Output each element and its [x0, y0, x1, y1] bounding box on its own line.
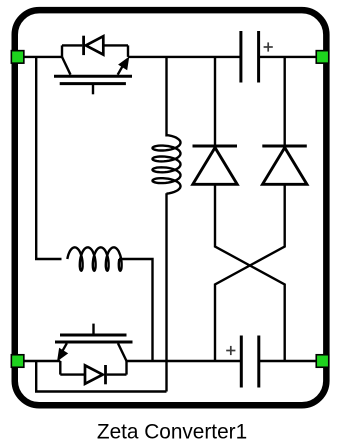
port terminal 2 (right top) — [316, 51, 329, 64]
IGBT Q1 emitter arrowhead — [119, 58, 129, 70]
IGBT Q2 gate stub — [92, 324, 94, 334]
IGBT Q1 bridge right vertical — [127, 45, 129, 57]
wire: left vertical drop to inductor L2 — [36, 57, 61, 259]
wire: bottom rail right of C2 to terminal — [259, 360, 322, 362]
IGBT Q1 bridge left vertical — [61, 45, 63, 57]
port terminal 4 (right bottom) — [316, 355, 329, 368]
capacitor C1 left plate — [239, 31, 242, 83]
IGBT Q1 anti-parallel diode triangle — [86, 36, 104, 54]
IGBT Q1 bridge top line left — [62, 44, 82, 46]
IGBT Q1 channel bar — [54, 75, 132, 78]
wire: top rail right of C1 to terminal — [259, 56, 322, 58]
IGBT Q1 right slant shaft (emitter) — [118, 65, 124, 75]
capacitor C2 left plate — [240, 336, 243, 388]
port terminal 1 (left top) — [11, 51, 24, 64]
IGBT Q2 bridge bottom line left — [60, 373, 85, 375]
IGBT Q2 bridge right vertical — [125, 361, 127, 375]
IGBT Q1 bridge top line right — [105, 44, 129, 46]
IGBT Q2 bridge left vertical — [59, 361, 61, 375]
diode D2 cathode bar — [262, 145, 307, 148]
IGBT Q2 right slant (collector) — [118, 343, 127, 361]
IGBT Q1 gate stub — [92, 85, 94, 94]
diode D2 triangle — [263, 148, 307, 185]
wire: top-left lead from terminal to IGBT Q1 — [17, 56, 62, 58]
IGBT Q2 anti-parallel diode cathode bar — [104, 365, 107, 384]
wire: bypass from bottom-left lead to L1 bottom — [36, 361, 166, 392]
IGBT Q2 emitter arrowhead — [58, 349, 68, 361]
capacitor C1 right plate — [257, 31, 260, 83]
IGBT Q2 bridge bottom line right — [107, 373, 127, 375]
IGBT Q2 anti-parallel diode triangle — [85, 365, 103, 383]
wire: D1 anode drop from top rail — [214, 57, 216, 146]
IGBT Q1 gate bar — [60, 82, 126, 85]
inductor L1 (vertical coil) — [153, 135, 181, 194]
wire: bottom-left lead from terminal to IGBT Q2 — [17, 360, 60, 362]
wire: L2 right lead down to bottom rail — [119, 259, 153, 361]
capacitor C1 plus sign — [264, 42, 273, 51]
inductor L2 (horizontal coil) — [67, 247, 121, 270]
capacitor C2 right plate — [257, 336, 260, 388]
wire: top rail from Q1 to capacitor C1 — [128, 56, 241, 58]
IGBT Q2 channel bar — [55, 341, 133, 344]
IGBT Q2 left slant shaft (emitter) — [61, 343, 67, 353]
wire: D2 bottom through X crossing to bottom rail left — [215, 184, 285, 361]
wire: bottom rail from Q2 to capacitor C2 — [127, 360, 242, 362]
port terminal 3 (left bottom) — [11, 355, 24, 368]
diode D1 cathode bar — [193, 145, 238, 148]
diode D1 triangle — [193, 148, 237, 185]
svg-text:Zeta Converter1: Zeta Converter1 — [97, 421, 247, 444]
IGBT Q2 gate bar — [60, 334, 127, 337]
IGBT Q1 anti-parallel diode cathode bar — [82, 36, 85, 55]
IGBT Q1 left slant (collector) — [62, 57, 71, 75]
wire: L1 top lead — [165, 57, 167, 137]
wire: D1 bottom through X crossing to bottom rail right — [215, 184, 285, 361]
wire: L1 bottom lead down to bypass line — [165, 193, 167, 391]
wire: D2 anode drop from top rail — [284, 57, 286, 146]
capacitor C2 plus sign — [226, 346, 235, 355]
